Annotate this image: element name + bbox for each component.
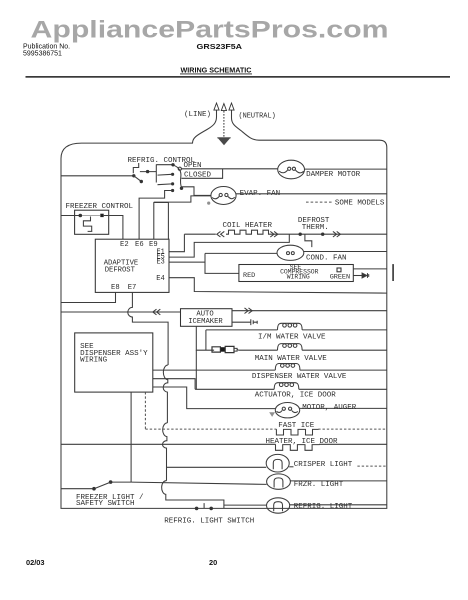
refrig light branch [224, 504, 267, 506]
E7 hop over dispenser rows [163, 365, 168, 423]
link blade low [158, 183, 173, 186]
svg-text:THERM.: THERM. [302, 224, 329, 232]
svg-text:FRZR. LIGHT: FRZR. LIGHT [294, 481, 344, 489]
svg-text:(NEUTRAL): (NEUTRAL) [239, 113, 276, 121]
wire closed loop to open wire [182, 169, 223, 179]
wire E7 with hop over W1 [128, 292, 168, 365]
svg-text:02/03: 02/03 [26, 558, 45, 567]
node defrost right [321, 233, 324, 236]
frzr light circle [267, 474, 291, 489]
wire E3 to red riser [169, 261, 205, 263]
evap fan inner arcs [212, 197, 235, 199]
frzr light line left [131, 482, 267, 484]
svg-text:AppliancePartsPros.com: AppliancePartsPros.com [31, 17, 389, 44]
actuator row line [195, 388, 387, 390]
motor auger gray arrow [269, 412, 275, 417]
wire W1 border to icemaker [61, 311, 181, 313]
motor feed wire [153, 387, 275, 409]
D2 wire to actuator row [153, 379, 195, 390]
frzr light right wire [290, 480, 386, 482]
node refrig switch right [209, 507, 213, 511]
node refrig mid [146, 170, 149, 173]
cond fan oval [277, 245, 304, 260]
node bottom contact [171, 189, 174, 192]
wire E4 bottom long [169, 278, 387, 293]
safety switch right link [112, 481, 132, 483]
refrig light circle [267, 498, 290, 513]
refrig switch arm [134, 176, 141, 182]
node open top [171, 163, 174, 166]
evap fan coil circles [219, 193, 222, 196]
green wire with plug [353, 275, 362, 277]
heater ice door line left [61, 443, 276, 445]
icemaker right chevrons [245, 308, 253, 314]
frzr lamp symbol [274, 478, 283, 488]
svg-text:E3: E3 [157, 258, 165, 266]
actuator coil [274, 383, 299, 390]
link blade mid [158, 173, 173, 176]
red wire riser [205, 253, 239, 273]
icemaker plug wire [232, 321, 251, 323]
svg-text:GRS23F5A: GRS23F5A [197, 42, 243, 51]
svg-text:Publication No.: Publication No. [23, 44, 70, 51]
svg-text:E4: E4 [156, 275, 165, 283]
ground arrowhead up [221, 104, 226, 111]
refrig light switch notch [203, 503, 205, 508]
refrig vertical bar [155, 164, 157, 182]
W1 chevrons [153, 309, 161, 315]
svg-text:CRISPER LIGHT: CRISPER LIGHT [294, 461, 353, 469]
wire E5 riser long [169, 234, 289, 257]
wire E6 from switch [139, 191, 173, 240]
fast ice dashed drop from dispenser box [144, 392, 146, 429]
evap fan oval [211, 187, 236, 205]
svg-text:E6: E6 [135, 241, 144, 249]
node closed contact [180, 187, 183, 190]
wire evap fan to border [236, 193, 387, 195]
svg-text:E7: E7 [128, 284, 137, 292]
cond fan left wire [205, 252, 277, 254]
svg-text:E8: E8 [111, 284, 120, 292]
defrost line chevrons [333, 231, 341, 237]
node refrig common [132, 174, 135, 177]
wire freezer control to E2 [104, 216, 123, 240]
dispenser row line [153, 369, 387, 371]
title underline [180, 73, 252, 75]
freezer control box [75, 210, 109, 234]
svg-text:HEATER, ICE DOOR: HEATER, ICE DOOR [266, 438, 339, 446]
node refrig arm end [140, 180, 143, 183]
svg-text:REFRIG. LIGHT SWITCH: REFRIG. LIGHT SWITCH [164, 517, 254, 525]
fast ice resistor [276, 429, 318, 435]
crisper light line left [167, 466, 267, 468]
wire border to refrig control [61, 175, 134, 177]
damper motor inner arcs [279, 170, 304, 173]
coil heater resistor [226, 230, 271, 234]
crisper light dashed to border [357, 465, 386, 467]
svg-text:MAIN WATER VALVE: MAIN WATER VALVE [255, 355, 328, 363]
refrig lamp symbol [274, 502, 283, 512]
svg-text:DEFROST: DEFROST [105, 267, 136, 275]
motor auger oval [275, 403, 299, 418]
damper motor wire through [305, 168, 387, 170]
adaptive defrost box [95, 239, 169, 292]
crisper light circle [266, 454, 289, 472]
node refrig switch left [195, 507, 199, 511]
svg-text:5995386751: 5995386751 [23, 51, 62, 58]
wire E8 to border [61, 292, 116, 302]
refrig top link [156, 164, 172, 166]
coil heater right arrows [270, 231, 278, 237]
svg-text:(LINE): (LINE) [184, 111, 211, 119]
icemaker plug symbol [251, 319, 257, 325]
line arrowhead [214, 103, 219, 110]
node safety left [92, 487, 96, 491]
some models dashed wire [306, 201, 333, 203]
E7 hop over frzr line, down to refrig [162, 481, 224, 509]
damper motor coil circles [288, 167, 291, 170]
icemaker right wire to border [232, 310, 387, 312]
safety switch wire to border [61, 488, 93, 490]
refrig mid bar [140, 171, 156, 173]
svg-text:FAST ICE: FAST ICE [278, 422, 315, 430]
header rule [26, 76, 451, 78]
cond fan right wire to border [304, 251, 387, 253]
capacitor bar outside border [392, 264, 394, 281]
svg-text:WIRING: WIRING [80, 357, 108, 365]
svg-text:RED: RED [243, 272, 255, 280]
main row plug connector [212, 347, 220, 352]
wire border to freezer control [61, 215, 79, 217]
freezer thermostat staircase [83, 217, 92, 232]
svg-text:COND. FAN: COND. FAN [306, 254, 347, 262]
crisper light line right stub [289, 466, 293, 468]
heater ice door resistor [276, 444, 320, 450]
compressor terminal square [337, 268, 341, 272]
icemaker bottom wire down [196, 326, 214, 350]
I/M valve coil [278, 323, 303, 330]
dispenser assy box [75, 333, 153, 392]
fast ice dashed line right [318, 428, 387, 430]
svg-text:DAMPER MOTOR: DAMPER MOTOR [306, 171, 361, 179]
open contact circle [178, 167, 181, 170]
wire open to damper [181, 168, 277, 170]
motor auger inner arcs [277, 410, 298, 412]
freezer switch thin link [82, 215, 100, 217]
motor auger coil circles [282, 407, 285, 410]
svg-text:E2: E2 [120, 241, 129, 249]
node safety right [109, 480, 113, 484]
wire evap fan left feed [154, 196, 211, 202]
wire E9 jog to box corner [154, 203, 169, 240]
svg-text:ACTUATOR, ICE DOOR: ACTUATOR, ICE DOOR [255, 392, 337, 400]
freezer safety drop [130, 392, 132, 482]
svg-text:WIRING: WIRING [287, 273, 310, 280]
svg-text:DISPENSER WATER VALVE: DISPENSER WATER VALVE [252, 373, 347, 381]
svg-text:20: 20 [209, 558, 217, 567]
refrig blade arc [174, 165, 182, 188]
schematic outer border (line side + neutral side) [61, 110, 387, 509]
icemaker drop to actuator junction [195, 350, 197, 389]
damper motor oval [278, 160, 305, 179]
E7 hop over fast ice and heater [163, 423, 168, 481]
coil heater left arrows [184, 231, 224, 237]
svg-text:I/M WATER VALVE: I/M WATER VALVE [258, 333, 326, 341]
crisper lamp symbol [273, 459, 282, 469]
svg-text:REFRIG. LIGHT: REFRIG. LIGHT [294, 503, 353, 511]
refrig control stub from label [133, 163, 138, 173]
ground dashed stem [223, 111, 225, 138]
compressor right wire to border [353, 268, 387, 270]
freezer contact square [100, 214, 103, 217]
cond fan coil circles [287, 252, 290, 255]
neutral arrowhead [229, 103, 234, 110]
node freezer common [79, 214, 83, 218]
svg-text:SOME MODELS: SOME MODELS [335, 200, 385, 208]
node defrost left [299, 233, 302, 236]
auto icemaker box [181, 309, 233, 327]
compressor box [239, 265, 353, 282]
wire closed contact to evap fan [182, 187, 212, 196]
coil heater line left riser (E1) [169, 234, 184, 252]
node blade low [171, 182, 174, 185]
main row line [238, 349, 387, 351]
I/M row drop [205, 330, 207, 350]
green plug symbol [362, 273, 369, 278]
svg-text:ICEMAKER: ICEMAKER [188, 318, 223, 326]
defrost therm step [305, 234, 312, 247]
defrost therm line to border [271, 233, 387, 235]
I/M row line [206, 329, 387, 331]
svg-text:GREEN: GREEN [330, 274, 350, 282]
svg-text:MOTOR, AUGER: MOTOR, AUGER [302, 404, 357, 412]
heater ice door line right [319, 443, 387, 445]
svg-text:WIRING SCHEMATIC: WIRING SCHEMATIC [181, 65, 252, 74]
fast ice dashed line left [145, 428, 276, 430]
refrig light right wire [290, 504, 387, 506]
svg-text:SAFETY SWITCH: SAFETY SWITCH [76, 500, 135, 508]
dispenser valve coil [275, 364, 300, 371]
evap fan gray dot [207, 202, 210, 205]
motor auger right wire [300, 407, 387, 409]
main valve coil [278, 344, 303, 351]
node blade mid [171, 173, 174, 176]
wire E9 drop [153, 202, 155, 239]
safety switch blade [95, 482, 111, 488]
ground down arrow [219, 138, 230, 144]
svg-text:COIL HEATER: COIL HEATER [223, 222, 273, 230]
